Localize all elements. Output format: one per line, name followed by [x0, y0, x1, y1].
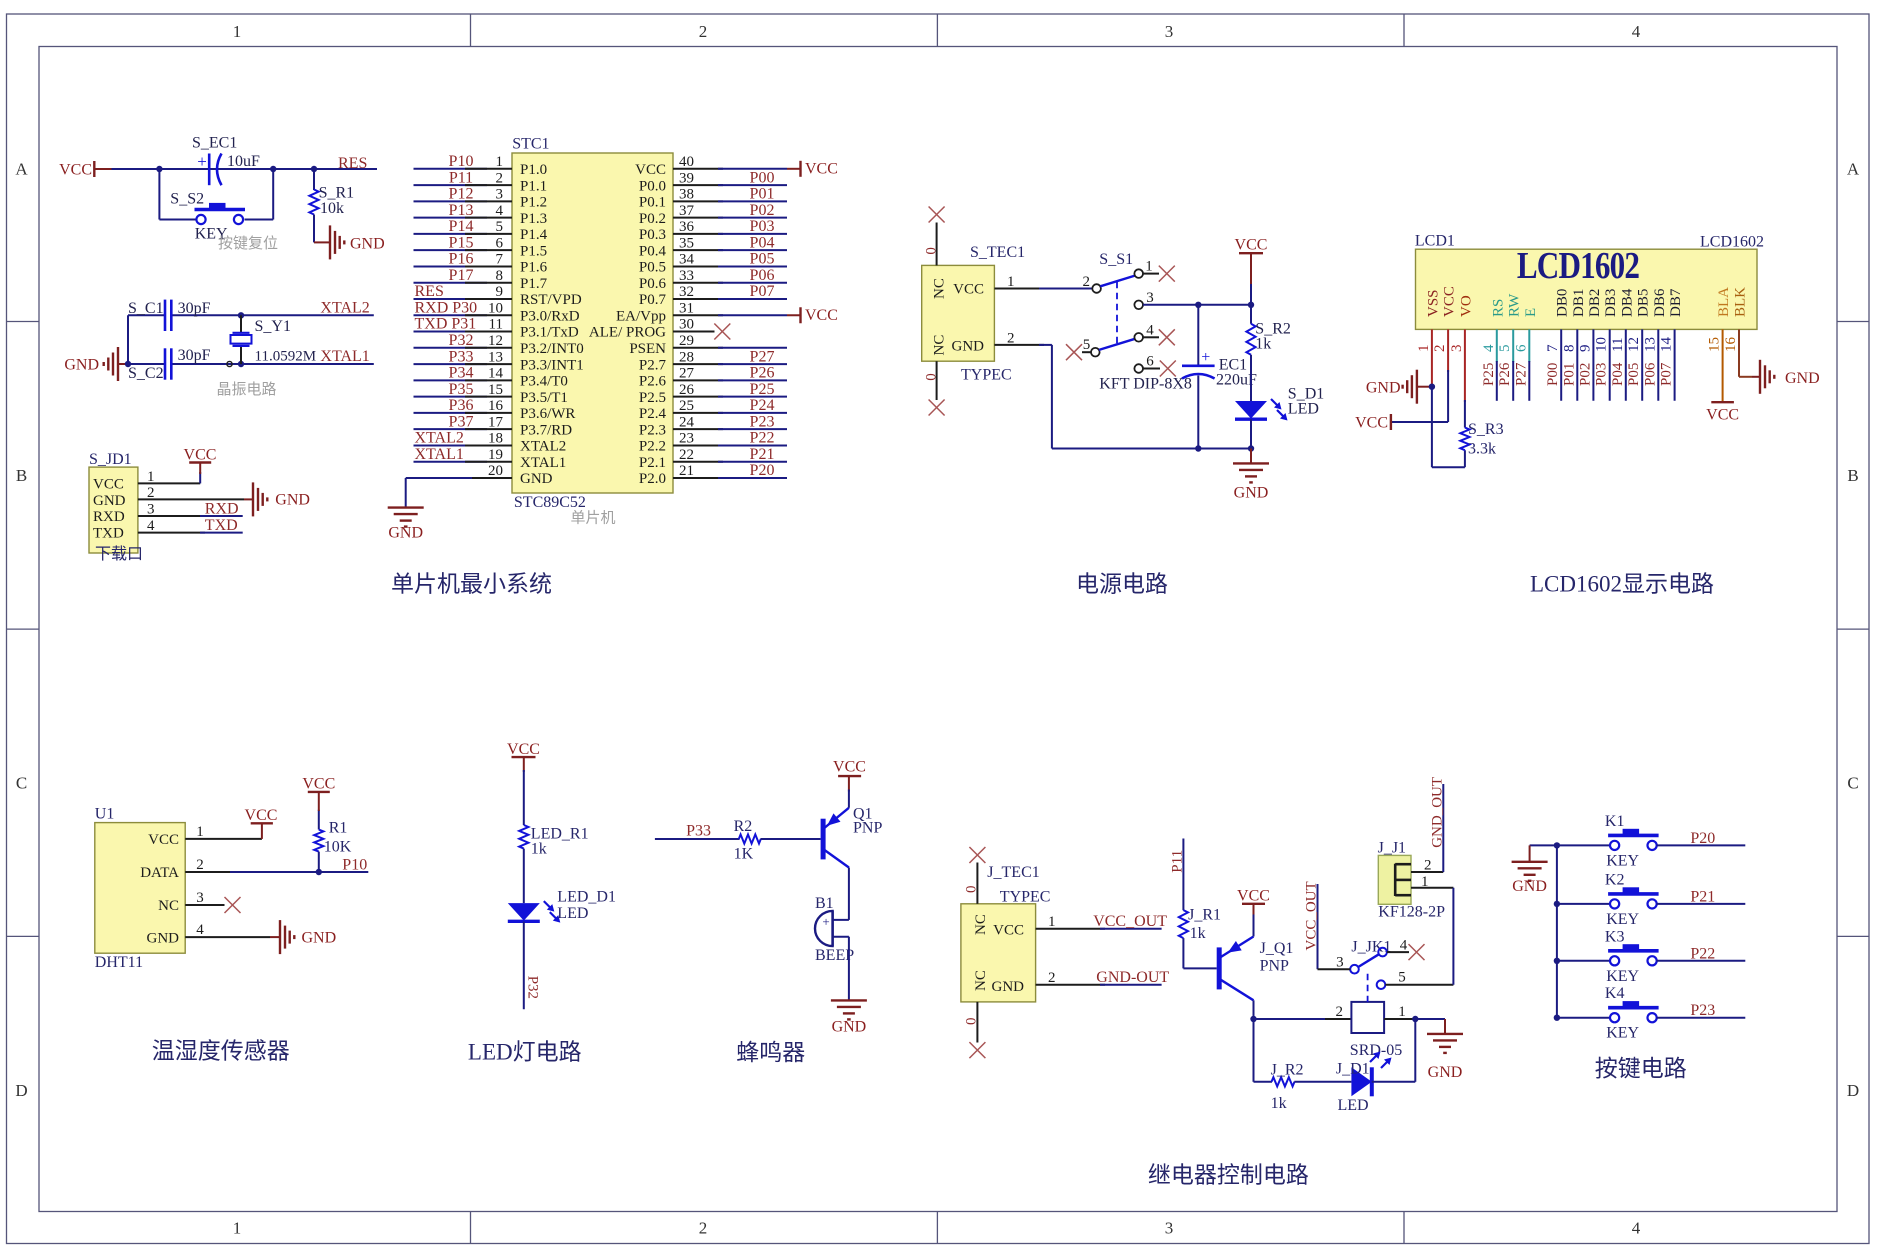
svg-text:+: +	[822, 914, 829, 929]
wire LCD pin1 VSS	[1431, 329, 1433, 386]
svg-text:2: 2	[699, 1219, 708, 1238]
resistor S_R2 1k	[1246, 321, 1290, 355]
svg-text:按键电路: 按键电路	[1595, 1056, 1687, 1081]
svg-text:下载口: 下载口	[95, 545, 143, 563]
svg-text:LCD1602显示电路: LCD1602显示电路	[1530, 572, 1714, 597]
svg-text:S_C1: S_C1	[128, 300, 164, 317]
svg-text:J_JK1: J_JK1	[1351, 939, 1391, 956]
svg-text:11: 11	[489, 317, 503, 333]
svg-text:TYPEC: TYPEC	[1000, 889, 1051, 906]
node junction key row K2	[1554, 901, 1560, 907]
svg-text:P0.5: P0.5	[639, 260, 666, 276]
net labels P25 P26 P27	[1481, 362, 1530, 386]
svg-text:P0.4: P0.4	[639, 243, 667, 259]
svg-text:P03: P03	[1594, 363, 1610, 386]
ground GND (crystal)	[64, 347, 128, 381]
svg-text:K1: K1	[1605, 813, 1625, 830]
svg-text:7: 7	[1545, 344, 1561, 352]
svg-text:J_R1: J_R1	[1188, 907, 1221, 924]
svg-text:P3.4/T0: P3.4/T0	[520, 374, 568, 390]
ground GND (keys)	[1512, 845, 1557, 895]
svg-text:按键复位: 按键复位	[218, 234, 278, 252]
svg-text:PSEN: PSEN	[629, 341, 666, 357]
pin 2 wire S_JD1 to GND	[138, 498, 244, 500]
wire S_S2 branch left	[159, 169, 196, 220]
svg-text:BLK: BLK	[1733, 287, 1749, 317]
wire K4 left	[1557, 1017, 1610, 1019]
svg-text:2: 2	[196, 857, 204, 873]
svg-text:4: 4	[1632, 22, 1641, 41]
transistor Q1 PNP	[823, 806, 882, 868]
svg-text:P04: P04	[1610, 362, 1626, 386]
wire relay to GND	[1415, 1019, 1445, 1034]
svg-text:8: 8	[496, 268, 504, 284]
svg-text:P1.3: P1.3	[520, 211, 547, 227]
node junction VCC rail	[1248, 302, 1254, 308]
pin 1 wire U1 to VCC	[185, 838, 262, 840]
pin 1 wire S_JD1 to VCC	[138, 472, 200, 483]
node junction gnd rail right	[1248, 445, 1254, 451]
wires STC1 right pin rows	[673, 169, 787, 478]
IC U1 DHT11	[95, 806, 185, 972]
wire R2 to Q1 base	[761, 838, 821, 840]
svg-text:DHT11: DHT11	[95, 954, 143, 971]
svg-text:3: 3	[1146, 290, 1154, 306]
svg-text:P16: P16	[449, 251, 474, 268]
svg-text:28: 28	[679, 349, 694, 365]
wire K3 right	[1657, 960, 1746, 962]
resistor LED_R1 1k	[519, 825, 588, 857]
net labels P32-P37	[449, 332, 474, 430]
svg-text:4: 4	[496, 203, 504, 219]
no-connect X J_TEC1 bottom	[969, 1042, 985, 1058]
svg-text:P1.5: P1.5	[520, 243, 547, 259]
svg-text:30pF: 30pF	[178, 300, 211, 317]
svg-text:KEY: KEY	[1606, 911, 1639, 928]
svg-text:P14: P14	[449, 218, 474, 235]
wire S_TEC1 top stub	[936, 223, 938, 266]
svg-text:11: 11	[1610, 338, 1626, 352]
svg-text:P02: P02	[750, 202, 775, 219]
pin 2 wire DATA	[185, 871, 368, 873]
svg-text:P07: P07	[1659, 362, 1675, 386]
wires LCD data pins	[1497, 329, 1675, 400]
svg-text:P20: P20	[750, 462, 775, 479]
svg-text:34: 34	[679, 252, 695, 268]
svg-text:3: 3	[196, 890, 204, 906]
svg-text:P26: P26	[1497, 362, 1513, 386]
wire S_D1 to gnd rail	[1250, 419, 1252, 448]
svg-text:XTAL1: XTAL1	[320, 348, 369, 365]
pin 5 J_JK1 wire	[1385, 984, 1453, 986]
svg-text:P33: P33	[449, 348, 474, 365]
pin numbers STC1 right	[679, 154, 695, 479]
svg-text:KEY: KEY	[1606, 1025, 1639, 1042]
svg-text:GND: GND	[147, 930, 180, 946]
pin names LCD1	[1425, 286, 1748, 317]
svg-text:23: 23	[679, 431, 694, 447]
wire K1 left	[1557, 844, 1610, 846]
svg-text:KF128-2P: KF128-2P	[1378, 904, 1445, 921]
svg-text:10K: 10K	[324, 838, 352, 855]
power portal VCC (U1)	[245, 807, 278, 839]
svg-text:XTAL1: XTAL1	[520, 455, 566, 471]
power portal VCC (S_JD1)	[184, 447, 217, 475]
svg-text:RES: RES	[415, 283, 444, 300]
resistor J_R1 1k	[1179, 907, 1221, 943]
svg-text:TXD: TXD	[205, 517, 238, 534]
svg-text:1: 1	[496, 154, 504, 170]
svg-text:0: 0	[964, 886, 980, 894]
connector S_JD1 下载口	[89, 451, 138, 553]
svg-text:GND: GND	[832, 1019, 867, 1036]
svg-text:P2.4: P2.4	[639, 406, 667, 422]
svg-text:GND: GND	[952, 339, 985, 355]
svg-text:DATA: DATA	[140, 865, 179, 881]
svg-text:DB5: DB5	[1636, 289, 1652, 317]
node junction collector	[1250, 1016, 1256, 1022]
svg-text:GND: GND	[302, 930, 337, 947]
svg-text:P23: P23	[750, 413, 775, 430]
svg-text:GND: GND	[992, 979, 1025, 995]
svg-text:1: 1	[1398, 1004, 1406, 1020]
svg-text:A: A	[15, 160, 28, 179]
wire Q1 collector to B1	[848, 868, 850, 920]
pin 3 wire RXD	[138, 515, 243, 517]
svg-text:12: 12	[488, 333, 503, 349]
IC LCD1 LCD1602	[1415, 233, 1764, 330]
svg-text:P23: P23	[1690, 1002, 1715, 1019]
power portal VCC (pin31)	[787, 307, 838, 324]
svg-text:单片机最小系统: 单片机最小系统	[391, 572, 552, 597]
svg-text:P3.1/TxD: P3.1/TxD	[520, 325, 579, 341]
svg-text:P2.6: P2.6	[639, 374, 667, 390]
svg-text:P01: P01	[750, 186, 775, 203]
svg-text:P22: P22	[750, 430, 775, 447]
svg-text:B: B	[16, 466, 27, 485]
wire VCC to J_Q1 emitter	[1253, 915, 1255, 937]
wire K3 left	[1557, 960, 1610, 962]
svg-text:P1.4: P1.4	[520, 227, 548, 243]
svg-text:0: 0	[964, 1018, 980, 1026]
wire LED_D1 to P32	[523, 922, 525, 1010]
IC U STC1 STC89C52 单片机	[512, 136, 673, 512]
wire J_J1 pin2 to GND_OUT	[1411, 784, 1443, 872]
svg-text:12: 12	[1626, 337, 1642, 352]
svg-text:GND: GND	[93, 493, 126, 509]
net labels P10-P17	[449, 153, 474, 284]
LED J_D1	[1336, 1052, 1392, 1115]
connector J_J1 KF128-2P	[1378, 840, 1445, 921]
svg-text:GND: GND	[1428, 1064, 1463, 1081]
svg-text:J_J1: J_J1	[1378, 840, 1406, 857]
svg-text:VCC: VCC	[1355, 415, 1388, 432]
svg-text:S_R3: S_R3	[1468, 421, 1504, 438]
svg-text:P36: P36	[449, 397, 474, 414]
pin 4 S_S1 wire and X	[1143, 336, 1159, 338]
switch J_JK1	[1350, 939, 1391, 1002]
svg-text:VO: VO	[1458, 295, 1474, 317]
connector S_TEC1 TYPEC	[922, 244, 1025, 384]
svg-text:P10: P10	[342, 857, 367, 874]
svg-text:VCC_OUT: VCC_OUT	[1304, 881, 1320, 950]
svg-text:P07: P07	[750, 283, 775, 300]
relay coil SRD-05	[1350, 1002, 1402, 1059]
no-connect X S_TEC1 top	[929, 207, 945, 223]
svg-text:4: 4	[1481, 344, 1497, 352]
net labels P00-P07	[750, 169, 775, 300]
svg-text:1k: 1k	[1255, 336, 1271, 353]
svg-text:NC: NC	[973, 914, 989, 935]
svg-text:P0.1: P0.1	[639, 195, 666, 211]
svg-text:VCC: VCC	[1706, 407, 1739, 424]
power portal VCC (pin40)	[787, 160, 838, 177]
ground GND (relay)	[1427, 1034, 1463, 1081]
wire S_TEC1 bottom stub	[936, 361, 938, 400]
svg-text:8: 8	[1561, 345, 1577, 353]
svg-text:P35: P35	[449, 381, 474, 398]
svg-text:DB4: DB4	[1619, 288, 1635, 317]
wire collector to relay pin2	[1254, 1018, 1352, 1020]
svg-text:2: 2	[1336, 1004, 1344, 1020]
svg-text:2: 2	[699, 22, 708, 41]
resistor J_R2 1k	[1271, 1062, 1304, 1113]
svg-text:TYPEC: TYPEC	[961, 367, 1012, 384]
svg-text:GND: GND	[1366, 380, 1401, 397]
wire K2 left	[1557, 903, 1610, 905]
wires STC1 left pin rows	[414, 169, 513, 462]
svg-text:J_Q1: J_Q1	[1260, 940, 1294, 957]
ground GND (U1)	[270, 920, 336, 954]
svg-text:P0.2: P0.2	[639, 211, 666, 227]
wire net RES horizontal	[112, 168, 378, 170]
wire GND-OUT pin2	[1036, 984, 1162, 986]
svg-text:LCD1: LCD1	[1415, 233, 1455, 250]
wire J_TEC1 bottom stub	[976, 1002, 978, 1043]
wire J_R2 to J_D1	[1294, 1081, 1351, 1083]
svg-text:J_D1: J_D1	[1336, 1061, 1370, 1078]
svg-text:P0.0: P0.0	[639, 178, 666, 194]
svg-text:VCC: VCC	[833, 759, 866, 776]
svg-text:继电器控制电路: 继电器控制电路	[1148, 1163, 1309, 1188]
svg-text:9: 9	[496, 284, 504, 300]
power portal VCC (rail)	[1235, 237, 1268, 287]
svg-text:VCC: VCC	[507, 741, 540, 758]
svg-text:13: 13	[1642, 337, 1658, 352]
node junction S_Y1 top	[238, 312, 244, 318]
svg-text:14: 14	[1659, 337, 1675, 353]
svg-text:DB0: DB0	[1555, 289, 1571, 317]
svg-text:3: 3	[496, 187, 504, 203]
svg-text:LED: LED	[1338, 1097, 1369, 1114]
wire J_Q1 collector down	[1253, 1000, 1255, 1019]
svg-text:1: 1	[196, 824, 204, 840]
wire S_R2 to S_D1	[1250, 355, 1252, 401]
svg-text:NC: NC	[932, 335, 948, 356]
buzzer B1 BEEP	[815, 895, 854, 964]
svg-text:U1: U1	[95, 806, 115, 823]
wire J_D1 to relay junction	[1372, 1019, 1416, 1082]
svg-text:XTAL2: XTAL2	[320, 300, 369, 317]
pin numbers LCD1	[1416, 337, 1739, 353]
svg-text:16: 16	[488, 398, 504, 414]
svg-text:S_TEC1: S_TEC1	[970, 244, 1025, 261]
svg-text:GND: GND	[1234, 485, 1269, 502]
svg-text:4: 4	[1400, 938, 1408, 954]
node junction EC1 top	[1195, 302, 1201, 308]
svg-text:P0.3: P0.3	[639, 227, 666, 243]
svg-text:3: 3	[1165, 1219, 1174, 1238]
svg-text:P2.0: P2.0	[639, 471, 666, 487]
svg-text:P26: P26	[750, 365, 775, 382]
svg-text:E: E	[1523, 308, 1539, 317]
pin 4 wire TXD	[138, 532, 243, 534]
svg-text:P27: P27	[750, 348, 775, 365]
pin 3 wire NC	[185, 904, 224, 906]
svg-text:21: 21	[679, 463, 694, 479]
wire VCC_OUT pin1	[1036, 928, 1162, 930]
ground GND (LCD right)	[1752, 360, 1820, 394]
svg-text:P17: P17	[449, 267, 474, 284]
svg-text:2: 2	[1432, 345, 1448, 353]
wire VCC_OUT to J_JK1 pole	[1318, 884, 1351, 969]
svg-text:P01: P01	[1561, 363, 1577, 386]
crystal S_Y1 11.0592M	[227, 315, 316, 366]
svg-text:XTAL2: XTAL2	[415, 430, 464, 447]
svg-text:P32: P32	[449, 332, 474, 349]
svg-text:P00: P00	[1545, 363, 1561, 386]
LED LED_D1	[508, 889, 616, 923]
svg-text:6: 6	[496, 235, 504, 251]
ground GND (LCD left)	[1366, 370, 1432, 404]
power portal VCC (LED)	[507, 741, 540, 772]
svg-text:S_S1: S_S1	[1099, 251, 1133, 268]
svg-text:P2.5: P2.5	[639, 390, 666, 406]
svg-text:P05: P05	[750, 251, 775, 268]
node junction EC1 bottom	[1195, 445, 1201, 451]
svg-text:K3: K3	[1605, 928, 1625, 945]
svg-text:P0.7: P0.7	[639, 292, 667, 308]
node junction at S_EC1 left	[156, 166, 162, 172]
svg-text:P00: P00	[750, 169, 775, 186]
connector J_TEC1 TYPEC	[961, 864, 1051, 1002]
svg-text:LED: LED	[557, 905, 588, 922]
svg-text:1: 1	[233, 22, 242, 41]
svg-text:P04: P04	[750, 234, 775, 251]
svg-text:D: D	[15, 1081, 27, 1100]
svg-text:KEY: KEY	[1606, 968, 1639, 985]
svg-text:6: 6	[1146, 354, 1154, 370]
svg-text:VCC: VCC	[1237, 888, 1270, 905]
svg-text:14: 14	[488, 366, 504, 382]
switch K2 KEY	[1605, 871, 1659, 928]
svg-text:P1.7: P1.7	[520, 276, 548, 292]
svg-text:P2.2: P2.2	[639, 439, 666, 455]
wire J_TEC1 top stub	[976, 863, 978, 904]
svg-text:XTAL1: XTAL1	[415, 446, 464, 463]
svg-text:5: 5	[496, 219, 504, 235]
svg-text:P27: P27	[1513, 362, 1529, 386]
svg-text:DB1: DB1	[1571, 289, 1587, 317]
svg-text:DB7: DB7	[1668, 288, 1684, 317]
svg-text:4: 4	[1632, 1219, 1641, 1238]
svg-text:GND: GND	[520, 471, 553, 487]
switch S_S1 KFT DIP-8X8	[1091, 251, 1192, 393]
svg-text:31: 31	[679, 300, 694, 316]
svg-text:VCC: VCC	[805, 307, 838, 324]
svg-text:DB3: DB3	[1603, 289, 1619, 317]
wire VO loop to gnd	[1432, 387, 1465, 468]
svg-text:+: +	[1201, 349, 1210, 366]
svg-text:32: 32	[679, 284, 694, 300]
svg-text:电源电路: 电源电路	[1076, 572, 1168, 597]
svg-text:1: 1	[233, 1219, 242, 1238]
node junction crystal gnd	[125, 361, 131, 367]
node junction at S_R1 top	[311, 166, 317, 172]
svg-text:EA/Vpp: EA/Vpp	[616, 308, 666, 324]
capacitor S_EC1 10uF	[192, 135, 260, 186]
svg-text:LED_D1: LED_D1	[557, 889, 616, 906]
switch K1 KEY	[1605, 813, 1659, 870]
svg-text:RXD P30: RXD P30	[415, 299, 478, 316]
svg-text:P3.7/RD: P3.7/RD	[520, 422, 572, 438]
svg-text:STC89C52: STC89C52	[514, 494, 586, 511]
wire LCD pin16 BLK	[1739, 329, 1752, 376]
node junction key row K4	[1554, 1015, 1560, 1021]
svg-text:15: 15	[488, 382, 503, 398]
svg-text:P21: P21	[1690, 888, 1715, 905]
svg-text:KFT DIP-8X8: KFT DIP-8X8	[1099, 376, 1192, 393]
capacitor S_C1 30pF	[128, 300, 211, 331]
svg-text:11.0592M: 11.0592M	[255, 349, 317, 365]
svg-text:P02: P02	[1577, 363, 1593, 386]
pin 3 S_S1 wire to VCC rail	[1143, 304, 1251, 306]
svg-text:P06: P06	[750, 267, 775, 284]
svg-text:DB6: DB6	[1652, 288, 1668, 317]
svg-text:K2: K2	[1605, 871, 1625, 888]
svg-text:K4: K4	[1605, 985, 1625, 1002]
svg-text:P20: P20	[1690, 830, 1715, 847]
svg-text:P22: P22	[1690, 945, 1715, 962]
svg-text:P3.2/INT0: P3.2/INT0	[520, 341, 584, 357]
wire LCD pin2 VCC	[1391, 329, 1448, 422]
svg-text:1k: 1k	[1190, 925, 1206, 942]
svg-text:36: 36	[679, 219, 695, 235]
svg-text:S_EC1: S_EC1	[192, 135, 237, 152]
svg-text:GND: GND	[388, 525, 423, 542]
svg-text:1k: 1k	[1271, 1095, 1287, 1112]
svg-text:温湿度传感器: 温湿度传感器	[152, 1039, 290, 1064]
svg-text:P11: P11	[449, 169, 473, 186]
svg-text:VCC: VCC	[148, 832, 179, 848]
pin 4 wire U1 to GND	[185, 936, 270, 938]
svg-text:XTAL2: XTAL2	[520, 439, 566, 455]
svg-text:VCC: VCC	[993, 923, 1024, 939]
svg-text:C: C	[16, 774, 27, 793]
svg-text:P34: P34	[449, 365, 474, 382]
svg-text:P2.3: P2.3	[639, 422, 666, 438]
node junction R1 bottom	[316, 869, 322, 875]
svg-text:P3.3/INT1: P3.3/INT1	[520, 357, 584, 373]
power portal VCC (LCD pin2)	[1355, 414, 1391, 432]
pin numbers STC1 left	[488, 154, 504, 479]
svg-text:5: 5	[1497, 345, 1513, 353]
svg-text:RXD: RXD	[93, 509, 125, 525]
svg-text:P11: P11	[1170, 850, 1186, 873]
svg-text:38: 38	[679, 187, 694, 203]
svg-text:P3.0/RxD: P3.0/RxD	[520, 308, 580, 324]
svg-text:25: 25	[679, 398, 694, 414]
